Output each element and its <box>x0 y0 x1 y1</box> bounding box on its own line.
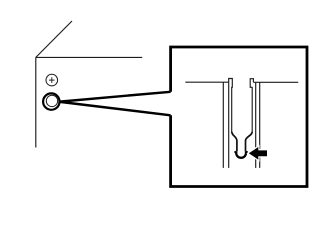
panel surface line right segment <box>253 81 298 83</box>
device corner diagonal <box>36 21 72 57</box>
right taper and plug shaft wall <box>246 132 253 152</box>
panel surface line left segment <box>185 81 228 83</box>
screw cross vertical <box>51 77 53 83</box>
device front vertical edge <box>35 57 37 147</box>
plug tip ball <box>236 151 246 158</box>
callout wedge top line <box>60 92 171 102</box>
device top edge <box>36 56 142 58</box>
left collar tab and inner barrel wall <box>229 79 233 133</box>
left taper and plug shaft wall <box>232 132 237 152</box>
arrow pointer <box>249 147 267 160</box>
plug tip left nub <box>234 151 236 153</box>
jack inner ring <box>46 95 57 106</box>
arrow white halo <box>249 147 267 160</box>
screw cross horizontal <box>49 79 55 81</box>
left outer shell line <box>222 82 224 168</box>
callout wedge bottom line <box>60 102 171 115</box>
right collar tab and inner barrel wall <box>250 79 253 133</box>
right outer shell line <box>259 82 261 168</box>
magnifier box <box>171 47 307 187</box>
screw head circle <box>46 74 58 86</box>
left barrel outer wall <box>228 82 230 168</box>
jack outer ring <box>43 93 59 109</box>
right barrel outer wall <box>255 82 257 168</box>
plug tip right nub <box>246 151 248 153</box>
